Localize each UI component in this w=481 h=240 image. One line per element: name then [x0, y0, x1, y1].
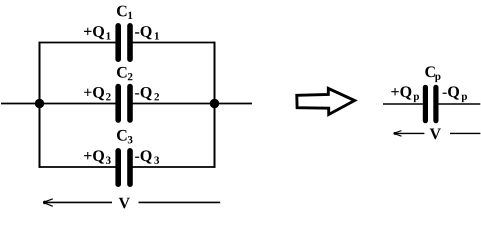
wire: bottom branch, right segment [132, 166, 214, 168]
label -Q2 [135, 87, 159, 100]
node: left junction dot [35, 99, 44, 108]
wire: left vertical bus [39, 42, 41, 168]
wire: right vertical bus [214, 42, 216, 168]
label -Qp [443, 86, 467, 102]
wire: right circuit, right segment [439, 103, 481, 105]
label C2 [117, 67, 132, 80]
capacitor C2 plates [118, 87, 130, 120]
label -Q1 [135, 26, 159, 39]
label -Q3 [135, 150, 159, 164]
wire: V line right segment (right circuit) [450, 132, 480, 134]
wire: V line right segment (left circuit) [139, 201, 221, 203]
label +Q1 [84, 26, 111, 39]
label +Q2 [84, 87, 111, 100]
capacitor C1 plates [118, 26, 130, 59]
wire: top branch, left segment [40, 42, 116, 44]
node: right junction dot [210, 99, 219, 108]
capacitor C3 plates [118, 151, 130, 184]
label C3 [117, 130, 133, 144]
label C1 [117, 6, 132, 19]
label V (left circuit) [119, 198, 130, 209]
capacitor Cp plates [425, 87, 436, 120]
wire: middle branch, right segment [132, 103, 252, 105]
label +Q3 [84, 150, 111, 164]
wire: V arrow under right circuit (points left) [394, 131, 425, 137]
wire: bottom branch, left segment [40, 166, 116, 168]
label V (right circuit) [430, 129, 441, 140]
wire: right circuit, left segment [383, 103, 423, 105]
equivalence block arrow [297, 88, 355, 114]
label Cp [425, 66, 440, 82]
wire: middle branch, left segment [1, 103, 116, 105]
label +Qp [391, 86, 419, 102]
wire: V arrow under left circuit (points left) [43, 199, 112, 207]
wire: top branch, right segment [132, 42, 214, 44]
